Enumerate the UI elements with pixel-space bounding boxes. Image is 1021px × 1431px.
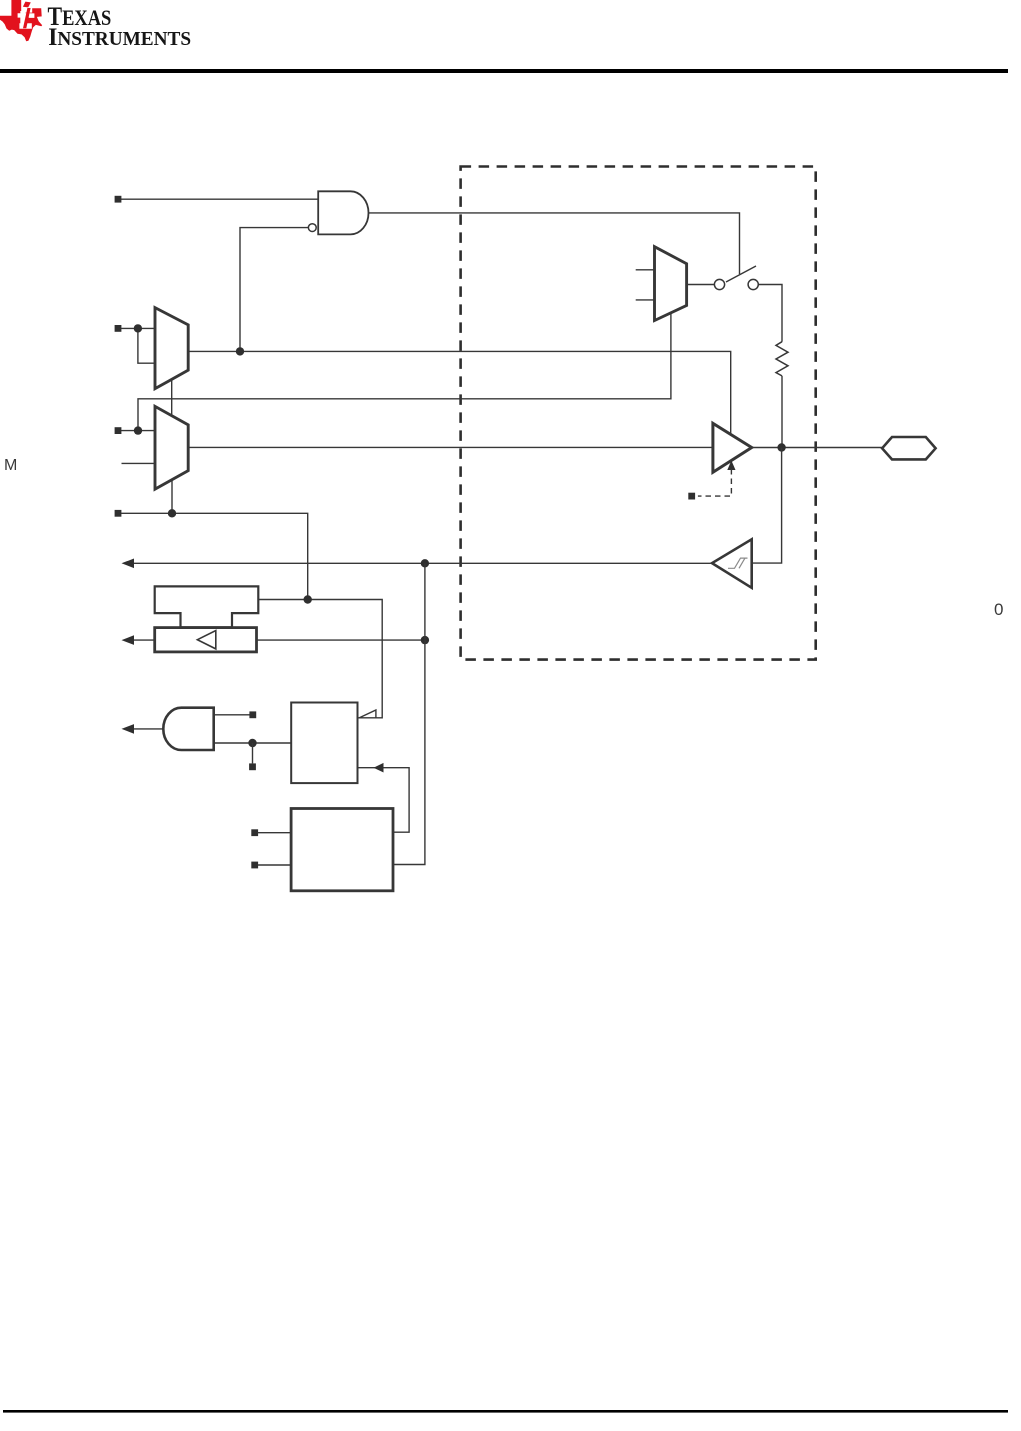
wire: FF2 input 1 <box>258 832 291 834</box>
junction: delay input node <box>421 636 429 644</box>
wire: delay block right input <box>257 639 425 641</box>
wire: pulse block output to FF1 clock <box>258 600 382 718</box>
pad hexagon <box>882 437 936 459</box>
wire: switch to resistor <box>758 285 782 342</box>
junction: M2 input node <box>134 426 142 434</box>
mux M3 (pull resistor select, inside cell) <box>655 247 687 321</box>
pulse block (edge detect, tab-bottom shape) <box>155 586 259 627</box>
wire: G1 top input <box>214 714 253 716</box>
TI logo red Texas bug <box>0 0 42 41</box>
wire: select input run to clock node <box>121 513 308 599</box>
input terminal square (NAND top input) <box>115 196 122 203</box>
input terminal square (M1 data) <box>115 325 122 332</box>
wire: G1 bottom input / FF1 D <box>214 742 292 744</box>
input terminal square (select input) <box>115 510 122 517</box>
wire: M3 input stub 1 <box>636 269 655 271</box>
wire: M3 output to switch <box>687 284 715 286</box>
output buffer triangle <box>713 423 752 472</box>
flip-flop FF2 <box>291 809 393 891</box>
arrowhead: G1 output left <box>122 724 135 734</box>
schmitt trigger input buffer (left facing) <box>712 539 752 588</box>
wire: FF2 out to FF1 input <box>358 768 410 833</box>
arrowhead: receive path left <box>122 559 135 569</box>
junction: select node <box>168 509 176 517</box>
junction: node A <box>236 347 244 355</box>
wire: G1 output to left (arrow) <box>125 728 164 730</box>
wire: stub to terminal below <box>252 743 254 763</box>
dashed OE stub with terminal <box>698 469 732 496</box>
wire: M3 input stub 2 <box>636 299 655 301</box>
wire: FF2 input 2 <box>258 864 291 866</box>
junction: clock node <box>304 595 312 603</box>
arrowhead: delay output left <box>122 635 135 645</box>
switch lever <box>726 266 756 282</box>
AND gate G1 (left facing) <box>163 708 213 750</box>
junction: pad node <box>777 443 785 451</box>
svg-text:INSTRUMENTS: INSTRUMENTS <box>48 23 191 51</box>
wire: NAND inverted input from node A <box>240 228 308 352</box>
wire: buffer output to pad <box>752 447 882 449</box>
wire: delay block left output (arrow) <box>125 639 155 641</box>
inversion bubble on NAND lower input <box>308 224 316 232</box>
mux M2 (lower 2:1 mux) <box>155 406 188 489</box>
buffer OE arrow (up) <box>727 461 735 471</box>
FF1 clock edge triangle <box>359 710 376 718</box>
wire: resistor to pad node <box>781 376 783 448</box>
wire: M2 input M <box>122 462 156 464</box>
svg-text:M: M <box>4 457 17 474</box>
wire: vertical bus to FF2 <box>393 563 425 864</box>
input terminal square (FF2 input 2) <box>251 862 258 869</box>
wire: M2 input A <box>121 430 155 432</box>
resistor (pull-up/down) <box>776 342 788 376</box>
junction: M1 input node <box>134 324 142 332</box>
wire: receive path to left (arrow) <box>125 562 713 564</box>
delay block rectangle <box>155 628 257 652</box>
wire: mode line to right mux select <box>138 313 671 431</box>
input terminal square (OE) <box>688 493 695 500</box>
junction: receive node <box>421 559 429 567</box>
junction: G1/FF1 node <box>248 739 256 747</box>
input terminal square (M2 data) <box>115 427 122 434</box>
flip-flop FF1 <box>291 703 357 784</box>
dashed boundary box (I/O cell) <box>461 167 816 660</box>
wire: M1 input A <box>121 327 155 329</box>
input terminal square (below G1) <box>249 763 256 770</box>
wire: NAND output to switch control <box>369 213 740 274</box>
wire: NAND top input <box>121 198 318 200</box>
switch contact circle right <box>748 279 758 289</box>
wire: M2 select from select input <box>171 480 173 514</box>
wire: shared select between M1 and M2 <box>171 379 173 417</box>
hysteresis symbol <box>728 558 748 568</box>
wire: pad node down to schmitt input <box>752 448 782 564</box>
mux M1 (upper 2:1 mux) <box>155 308 188 389</box>
input terminal square (G1 top input) <box>249 711 256 718</box>
wire: M2 output to output buffer input <box>188 446 713 448</box>
TI wordmark text TEXAS INSTRUMENTS <box>48 4 192 51</box>
bottom horizontal rule <box>3 1410 1008 1413</box>
svg-text:0: 0 <box>994 600 1003 619</box>
NAND gate (AND with inverted input) <box>318 191 368 234</box>
switch contact circle left <box>714 279 724 289</box>
wire: M1 input B loop <box>138 328 155 363</box>
input terminal square (FF2 input 1) <box>251 829 258 836</box>
wire: M1 output to node A and buffer OE <box>188 351 731 434</box>
delay symbol triangle inside <box>197 631 215 649</box>
top horizontal rule <box>0 69 1008 73</box>
arrowhead: into FF1 <box>374 763 384 773</box>
